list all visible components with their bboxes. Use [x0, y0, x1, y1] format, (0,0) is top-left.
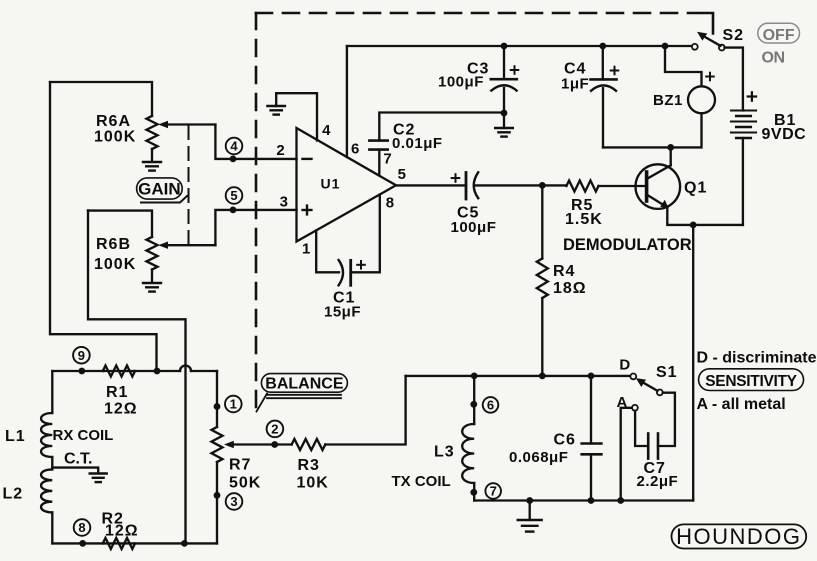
- svg-text:HOUNDOG: HOUNDOG: [676, 524, 801, 549]
- wire battery negative to emitter rail: [742, 138, 744, 225]
- svg-text:SENSITIVITY: SENSITIVITY: [705, 373, 797, 390]
- L2 label: [3, 486, 24, 503]
- wire center tap: [52, 457, 98, 473]
- C.T. label: [64, 451, 92, 468]
- pin 1 label: [302, 241, 310, 258]
- ground (R6A): [143, 162, 161, 171]
- pin 5 label: [398, 166, 406, 183]
- resistor R3: [292, 439, 326, 450]
- R2 label: [102, 511, 139, 540]
- op-amp U1: [297, 128, 397, 242]
- wire Q1 collector: [670, 147, 672, 165]
- transistor Q1: [636, 164, 681, 209]
- node 5 junction: [230, 207, 237, 214]
- wire BZ1 top feed: [665, 46, 702, 86]
- resistor R1: [103, 366, 135, 377]
- C2 label: [392, 121, 443, 152]
- ground (U1 pin 4): [267, 94, 285, 115]
- junction TX ground: [526, 497, 533, 504]
- svg-text:100K: 100K: [94, 129, 136, 146]
- wire R6B box to bottom rail: [88, 211, 186, 544]
- wire RX top rail (left): [52, 370, 180, 372]
- wire A contact to C7: [635, 411, 648, 446]
- svg-text:D: D: [619, 357, 630, 374]
- wire R7 bottom: [216, 462, 218, 543]
- pin 7 wire: [378, 150, 380, 176]
- wire C7 to S1 pole: [658, 393, 675, 446]
- R6A label: [94, 113, 136, 146]
- node 3 junction: [214, 492, 221, 499]
- node 6 (circled): [483, 397, 499, 413]
- svg-text:GAIN: GAIN: [138, 180, 181, 199]
- junction C6 top: [588, 373, 595, 380]
- wire C6 bottom: [590, 454, 592, 500]
- ground (R6B): [143, 283, 161, 292]
- svg-text:R1: R1: [106, 384, 128, 401]
- gang dashed line (GAIN): [188, 126, 190, 248]
- R7 label: [229, 457, 261, 492]
- wire R4 to TX rail: [541, 298, 543, 376]
- dashed module boundary (top-right corner to S2): [699, 13, 713, 34]
- TX COIL label: [392, 473, 451, 490]
- junction L3 top: [471, 373, 478, 380]
- svg-text:R4: R4: [553, 263, 575, 280]
- svg-text:C6: C6: [554, 431, 576, 448]
- node 7 (circled): [485, 483, 501, 499]
- node 7 junction: [470, 489, 477, 496]
- wire R6B top feed: [88, 211, 152, 237]
- S1 pole contact: [657, 390, 663, 396]
- wire S2 to battery: [725, 48, 743, 111]
- svg-text:2: 2: [276, 142, 284, 159]
- wire R6A ground stem: [151, 149, 153, 162]
- capacitor C3: [491, 46, 517, 113]
- inductor L2: [41, 469, 52, 543]
- svg-text:L3: L3: [434, 444, 455, 461]
- switch S2 arm: [697, 32, 721, 46]
- node 4 (circled): [226, 138, 243, 155]
- C5 plus: [452, 174, 460, 182]
- svg-text:1μF: 1μF: [561, 76, 589, 93]
- resistor R6A (pot element): [147, 116, 158, 149]
- C3 plus: [511, 66, 519, 74]
- wire R5 to Q1 base: [599, 185, 647, 187]
- svg-text:1: 1: [230, 397, 237, 412]
- resistor R4: [537, 259, 548, 298]
- svg-text:S1: S1: [656, 364, 678, 381]
- R6B label: [94, 236, 136, 273]
- svg-text:100μF: 100μF: [438, 74, 484, 91]
- capacitor C6: [582, 444, 602, 455]
- R3 label: [297, 457, 329, 492]
- wire R6A top feed: [50, 82, 152, 116]
- wire A contact to bottom rail: [621, 408, 632, 501]
- wire right bus (emitter to bottom rail): [692, 225, 694, 501]
- junction R4 bottom: [539, 373, 546, 380]
- wire R1 node to R7: [216, 371, 218, 427]
- wire L3 top: [473, 376, 475, 424]
- wire Q1 emitter to rail: [667, 207, 743, 225]
- R7 wiper arrow: [224, 441, 275, 448]
- C7 label: [637, 460, 679, 490]
- pin 4 label: [322, 122, 331, 139]
- pin 1 wire: [316, 231, 339, 273]
- capacitor C2: [369, 141, 387, 150]
- svg-text:RX COIL: RX COIL: [53, 427, 114, 444]
- pin 4 wire: [276, 93, 317, 140]
- wire C6 top: [590, 376, 592, 444]
- node 8 (circled): [74, 519, 91, 536]
- C1 label: [324, 290, 361, 321]
- capacitor C5: [466, 172, 478, 199]
- ground (C3): [495, 113, 513, 137]
- svg-text:10K: 10K: [297, 475, 329, 492]
- S1 A contact: [632, 405, 638, 411]
- svg-text:12Ω: 12Ω: [105, 523, 139, 540]
- svg-text:0.068μF: 0.068μF: [509, 449, 568, 466]
- svg-text:Q1: Q1: [684, 180, 707, 197]
- resistor R6B (pot element): [147, 237, 158, 270]
- svg-text:U1: U1: [321, 176, 341, 192]
- junction emitter rail / right bus: [690, 222, 697, 229]
- svg-text:C.T.: C.T.: [64, 451, 92, 468]
- junction C6 bottom: [588, 497, 595, 504]
- C4 label: [561, 61, 589, 93]
- wire R6A wiper to node 4: [215, 125, 296, 159]
- wire TX rail: [406, 375, 631, 377]
- BZ1 plus: [706, 73, 714, 81]
- node 5 (circled): [226, 187, 243, 204]
- inductor L1: [41, 371, 52, 457]
- GAIN label bubble: [137, 178, 187, 203]
- node 4 junction: [230, 156, 237, 163]
- svg-text:8: 8: [386, 195, 394, 212]
- svg-text:OFF: OFF: [763, 27, 795, 44]
- B1 plus: [748, 92, 756, 100]
- OFF label (bubble): [758, 23, 800, 44]
- svg-text:R6B: R6B: [96, 236, 131, 253]
- svg-text:15μF: 15μF: [324, 304, 361, 321]
- B1 label: [762, 112, 807, 143]
- svg-text:2: 2: [271, 422, 278, 437]
- svg-text:5: 5: [230, 188, 237, 203]
- C1 plus: [357, 261, 365, 269]
- resistor R2: [103, 538, 135, 549]
- capacitor C7: [648, 434, 658, 459]
- pin 6 wire: [346, 46, 348, 157]
- svg-text:DEMODULATOR: DEMODULATOR: [563, 236, 692, 254]
- switch S2 left contact: [692, 44, 698, 50]
- junction node 9: [78, 368, 85, 375]
- wire R6A top to RX junction (left tall wire): [50, 82, 157, 371]
- junction C4 top: [599, 43, 606, 50]
- node 1 (circled): [225, 396, 242, 413]
- svg-text:D - discriminate: D - discriminate: [697, 350, 817, 367]
- wire R6B ground stem: [151, 270, 153, 283]
- pin 2 label: [276, 142, 284, 159]
- S1 D contact: [630, 374, 636, 380]
- svg-text:100K: 100K: [94, 256, 136, 273]
- wire C2 to C3 node: [379, 113, 504, 141]
- S1 arm: [636, 378, 658, 391]
- wire R3 to TX rail: [325, 376, 405, 445]
- svg-text:7: 7: [383, 151, 391, 168]
- wire node 2 to R3: [275, 443, 292, 445]
- D label: [619, 357, 630, 374]
- wire C5 node to R5: [542, 184, 566, 186]
- R1 label: [104, 384, 138, 418]
- svg-text:L1: L1: [5, 428, 26, 445]
- BALANCE label bubble: [257, 374, 348, 412]
- BZ1 label: [653, 92, 683, 109]
- svg-text:1.5K: 1.5K: [565, 211, 603, 228]
- svg-text:3: 3: [230, 494, 237, 509]
- C3 label: [438, 61, 489, 91]
- RX COIL label: [53, 427, 114, 444]
- ground (TX): [518, 503, 542, 532]
- pin 6 label: [351, 140, 359, 157]
- wire RX bottom rail: [52, 542, 217, 544]
- svg-text:9: 9: [78, 348, 85, 363]
- svg-text:0.01μF: 0.01μF: [392, 135, 443, 152]
- dashed module boundary (top edge): [256, 12, 697, 15]
- svg-text:1: 1: [302, 241, 310, 258]
- R4 label: [553, 263, 587, 297]
- svg-text:3: 3: [280, 194, 288, 211]
- junction A-line bottom: [617, 497, 624, 504]
- node 1 junction: [214, 403, 221, 410]
- junction left bus / bottom rail: [181, 540, 188, 547]
- buzzer BZ1: [688, 86, 715, 113]
- resistor R7 (pot element): [212, 427, 223, 462]
- C4 plus: [611, 67, 619, 75]
- wire C4 bottom to BZ1 bottom: [603, 113, 702, 147]
- C6 label: [509, 431, 576, 466]
- node 2 (circled): [267, 421, 284, 438]
- U1 plus input marker: [303, 206, 312, 215]
- svg-text:BALANCE: BALANCE: [265, 376, 344, 393]
- node 2 junction: [271, 441, 278, 448]
- A - all metal label: [697, 396, 786, 413]
- R6B wiper arrow: [158, 242, 215, 249]
- svg-text:A - all metal: A - all metal: [697, 396, 786, 413]
- battery B1: [731, 111, 756, 139]
- svg-text:9VDC: 9VDC: [762, 126, 807, 143]
- pin 8 wire: [351, 195, 380, 273]
- svg-text:R3: R3: [298, 457, 320, 474]
- svg-text:100μF: 100μF: [451, 219, 497, 236]
- svg-text:L2: L2: [3, 486, 24, 503]
- node 6 junction: [470, 401, 477, 408]
- S1 label: [656, 364, 678, 381]
- wire hop (R1 rail over left bus): [180, 366, 191, 372]
- wire L3 bottom: [473, 483, 475, 501]
- wire top supply rail: [347, 45, 692, 47]
- ON label: [762, 50, 785, 67]
- HOUNDOG title bubble: [672, 524, 807, 549]
- svg-text:50K: 50K: [229, 475, 261, 492]
- dashed module boundary (left edge): [255, 13, 258, 412]
- pin 3 label: [280, 194, 288, 211]
- junction C5/R4/R5 node: [539, 182, 546, 189]
- U1 minus input marker: [303, 158, 312, 160]
- node 9 (circled): [73, 347, 90, 364]
- svg-text:R6A: R6A: [96, 113, 131, 130]
- pin 8 label: [386, 195, 394, 212]
- wire TX bottom rail: [474, 499, 693, 501]
- R5 label: [565, 197, 603, 228]
- wire RX top rail (right): [191, 370, 217, 372]
- L3 label: [434, 444, 455, 461]
- svg-text:12Ω: 12Ω: [104, 401, 138, 418]
- svg-text:S2: S2: [723, 27, 745, 44]
- capacitor C1: [339, 260, 351, 285]
- junction C3 bottom: [501, 110, 508, 117]
- junction Q1 collector node: [667, 144, 674, 151]
- svg-text:2.2μF: 2.2μF: [637, 473, 679, 490]
- L1 label: [5, 428, 26, 445]
- wire R6B wiper to node 5: [215, 210, 296, 245]
- junction BZ1 top: [662, 43, 669, 50]
- svg-text:R7: R7: [229, 457, 251, 474]
- Q1 label: [684, 180, 707, 197]
- svg-text:7: 7: [490, 484, 497, 499]
- A label: [616, 394, 627, 411]
- inductor L3: [462, 424, 474, 483]
- svg-text:BZ1: BZ1: [653, 92, 683, 109]
- svg-text:TX COIL: TX COIL: [392, 473, 451, 490]
- junction R1/R6A feed: [154, 368, 161, 375]
- svg-text:4: 4: [322, 122, 331, 139]
- node 3 (circled): [226, 493, 243, 510]
- svg-text:6: 6: [487, 398, 494, 413]
- svg-text:5: 5: [398, 166, 406, 183]
- svg-text:4: 4: [230, 139, 238, 154]
- D - discriminate label: [697, 350, 817, 367]
- R6A wiper arrow: [158, 121, 215, 128]
- svg-text:18Ω: 18Ω: [553, 280, 587, 297]
- svg-text:ON: ON: [762, 50, 785, 67]
- S2 label: [723, 27, 745, 44]
- svg-text:6: 6: [351, 140, 359, 157]
- junction node 8: [79, 540, 86, 547]
- capacitor C4: [591, 46, 617, 147]
- wire U1 output to C5: [396, 184, 466, 186]
- SENSITIVITY label bubble: [699, 369, 804, 391]
- svg-text:8: 8: [78, 520, 85, 535]
- switch S2 right contact: [719, 45, 725, 51]
- ground (center tap): [90, 474, 107, 483]
- DEMODULATOR label: [563, 236, 692, 254]
- resistor R5: [566, 181, 598, 192]
- C5 label: [451, 205, 497, 237]
- pin 7 label: [383, 151, 391, 168]
- junction C3 top: [501, 43, 508, 50]
- wire node to R4: [541, 185, 543, 258]
- wire C5 to node: [474, 184, 542, 186]
